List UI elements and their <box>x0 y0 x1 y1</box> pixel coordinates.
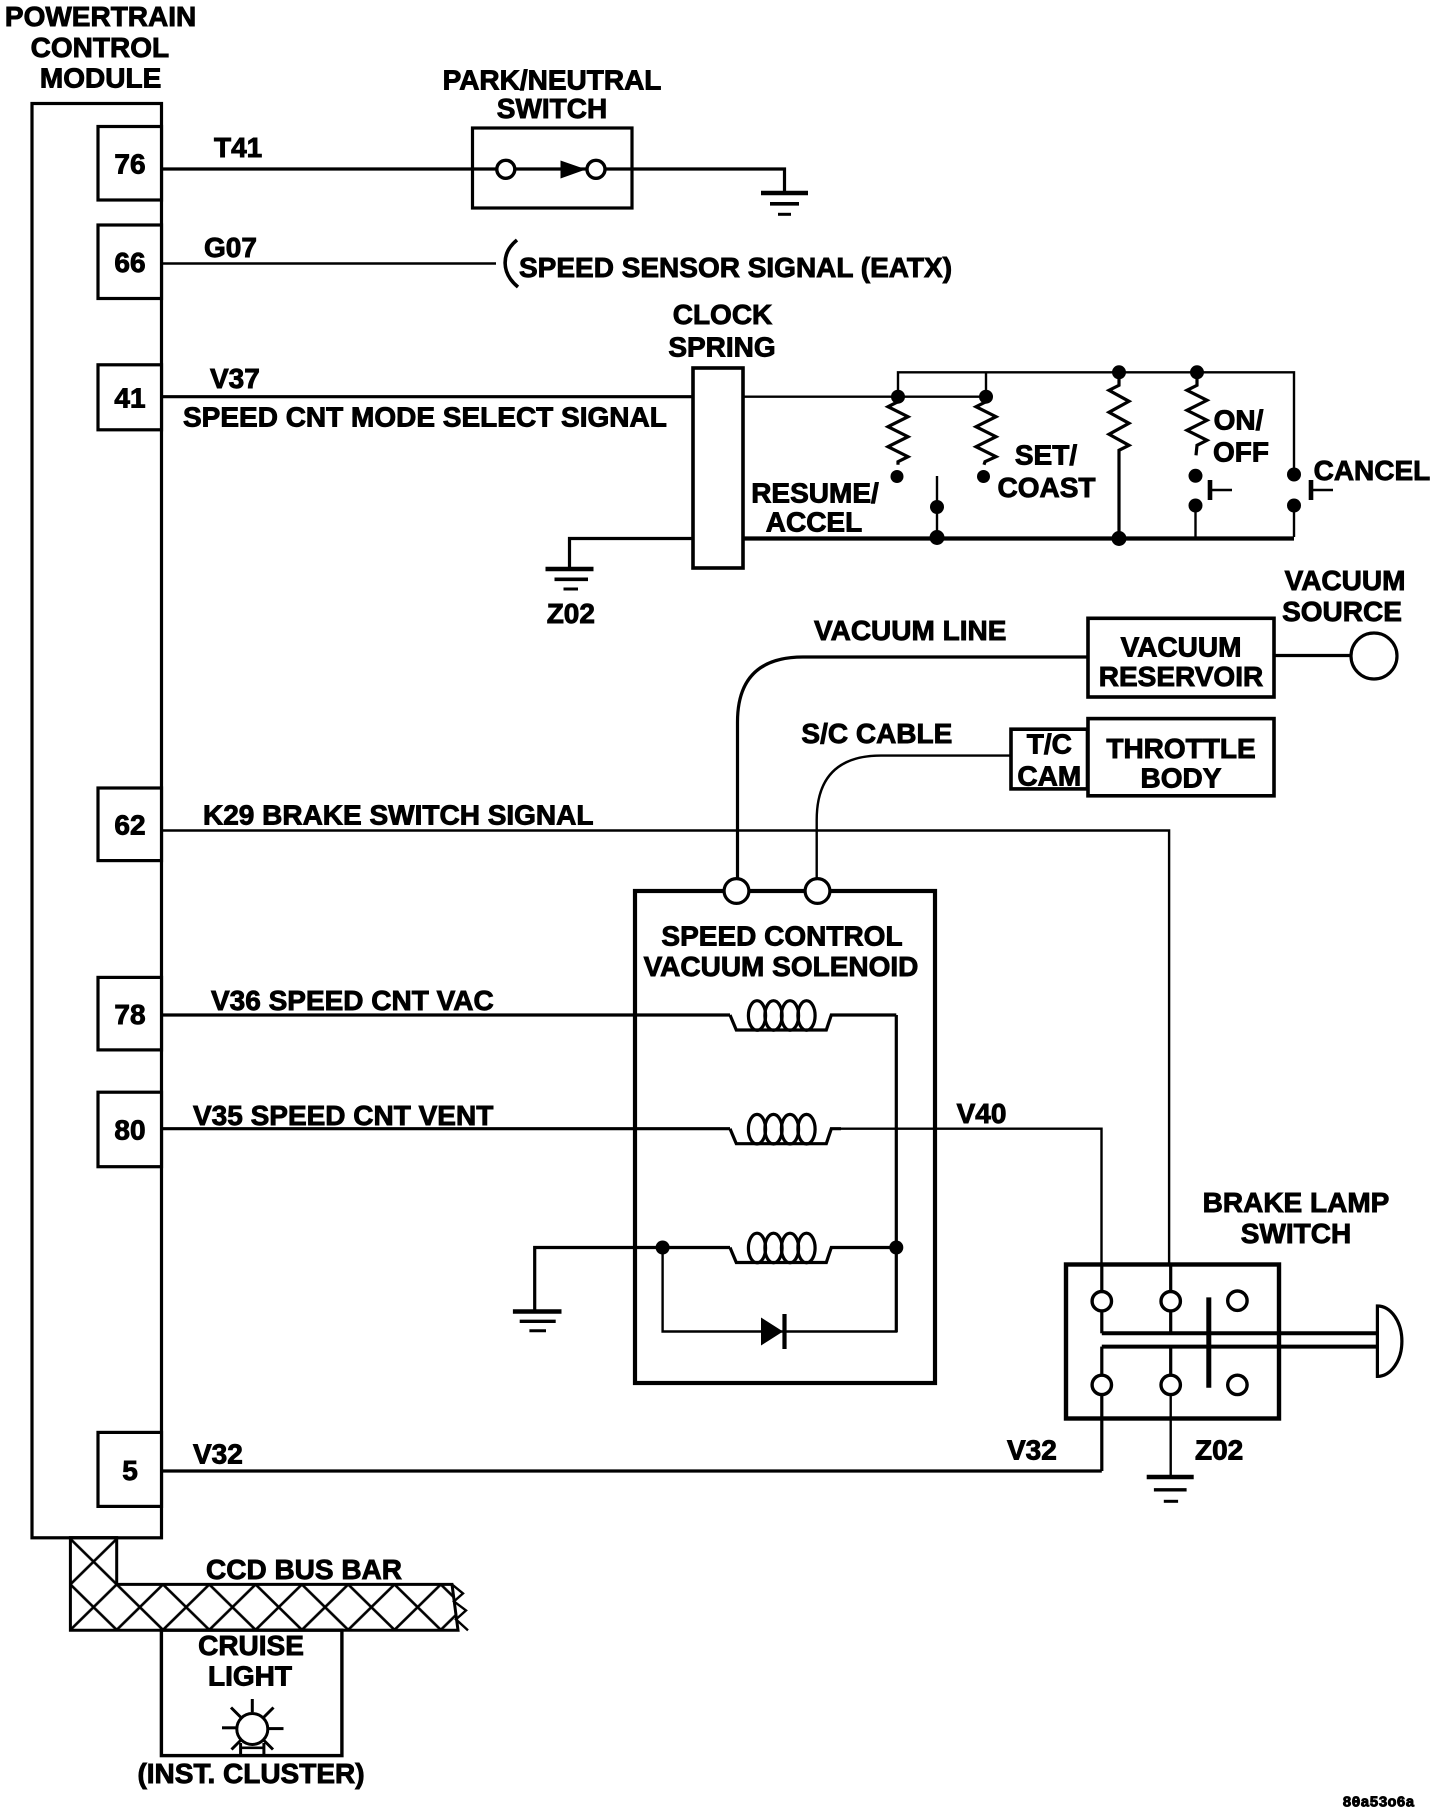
powertrain control module U1 body <box>32 104 162 1538</box>
wire stub resistor R2 top <box>985 372 987 396</box>
brake lamp switch label <box>1203 1187 1390 1249</box>
resistor R1 (resume/accel) <box>888 397 908 483</box>
svg-text:V36 SPEED CNT VAC: V36 SPEED CNT VAC <box>211 985 494 1016</box>
svg-text:COAST: COAST <box>998 472 1096 503</box>
label RESUME/ACCEL <box>751 478 879 538</box>
svg-text:MODULE: MODULE <box>40 63 161 94</box>
wire bottom rail of switch pack <box>743 536 1294 540</box>
node junction L3 left <box>656 1241 670 1255</box>
node junction L3 right <box>889 1241 903 1255</box>
vacuum reservoir body <box>1088 618 1274 697</box>
node speed sensor signal (EATX) brace <box>505 240 518 287</box>
svg-text:G07: G07 <box>204 232 257 263</box>
resistor R4 (on/off column) <box>1187 365 1207 483</box>
throttle body <box>1088 719 1274 796</box>
svg-text:Z02: Z02 <box>1195 1435 1243 1466</box>
svg-text:66: 66 <box>114 247 145 278</box>
pin 78 <box>98 977 162 1050</box>
svg-text:SPRING: SPRING <box>668 332 775 363</box>
pin 41 <box>98 365 162 430</box>
svg-text:VACUUM: VACUUM <box>1285 565 1406 596</box>
svg-text:ACCEL: ACCEL <box>766 507 862 538</box>
pin 66 <box>98 225 162 299</box>
wire ground coil row <box>535 1248 730 1312</box>
CCD bus bar break symbol <box>452 1584 468 1630</box>
port circle S/C cable on solenoid <box>805 879 830 904</box>
wire T41 pin76 to park/neutral switch <box>162 167 473 170</box>
resistor R2 (set/coast) <box>976 397 996 483</box>
wire vacuum reservoir to vacuum source <box>1274 654 1351 657</box>
svg-text:V37: V37 <box>210 363 260 394</box>
wire common return vertical in solenoid <box>895 1015 898 1332</box>
node junction R2 top <box>979 390 993 404</box>
svg-text:Z02: Z02 <box>547 598 595 629</box>
svg-text:K29 BRAKE SWITCH SIGNAL: K29 BRAKE SWITCH SIGNAL <box>203 800 593 831</box>
label SET/COAST <box>998 440 1096 504</box>
svg-text:78: 78 <box>114 999 145 1030</box>
svg-text:80a53o6a: 80a53o6a <box>1343 1795 1415 1812</box>
terminal circles bottom row <box>1092 1375 1247 1394</box>
brake lamp switch S2 body <box>1066 1265 1279 1419</box>
svg-text:PARK/NEUTRAL: PARK/NEUTRAL <box>443 65 662 96</box>
terminal circles top row <box>1092 1291 1247 1311</box>
svg-text:RESUME/: RESUME/ <box>751 478 879 509</box>
svg-text:VACUUM LINE: VACUUM LINE <box>814 615 1006 646</box>
T/C CAM body <box>1011 728 1088 791</box>
svg-text:V40: V40 <box>957 1098 1007 1129</box>
svg-text:BODY: BODY <box>1141 763 1222 794</box>
svg-text:T/C: T/C <box>1027 728 1072 759</box>
wire S/C cable to solenoid port <box>817 756 1011 880</box>
svg-text:CRUISE: CRUISE <box>198 1630 304 1661</box>
svg-text:RESERVOIR: RESERVOIR <box>1099 661 1263 692</box>
svg-text:41: 41 <box>114 383 145 414</box>
svg-text:VACUUM: VACUUM <box>1121 631 1242 662</box>
ground Z02 at clock spring <box>546 569 594 589</box>
diode D1 <box>761 1314 785 1349</box>
svg-text:5: 5 <box>122 1455 138 1486</box>
svg-text:SWITCH: SWITCH <box>497 93 607 124</box>
ground for park/neutral switch <box>761 193 808 214</box>
svg-text:SPEED CNT MODE SELECT SIGNAL: SPEED CNT MODE SELECT SIGNAL <box>183 402 667 433</box>
wire park/neutral switch to ground <box>632 169 785 193</box>
wire K29 into top middle terminal <box>1169 1265 1172 1292</box>
svg-text:T41: T41 <box>214 132 262 163</box>
svg-text:V32: V32 <box>193 1439 243 1470</box>
actuator cross bar <box>1206 1297 1211 1387</box>
svg-text:POWERTRAIN: POWERTRAIN <box>5 1 196 32</box>
plunger bar of brake lamp switch <box>1102 1333 1378 1346</box>
svg-text:CAM: CAM <box>1017 760 1081 791</box>
wire V37 pin41 to clock spring <box>162 395 694 398</box>
wire K29 brake switch signal <box>162 831 1170 1293</box>
inductor L2 vent coil <box>730 1114 841 1144</box>
resistor R3 (set/coast column) <box>1109 365 1129 546</box>
svg-text:SPEED SENSOR SIGNAL (EATX): SPEED SENSOR SIGNAL (EATX) <box>519 252 952 283</box>
svg-text:V35 SPEED CNT VENT: V35 SPEED CNT VENT <box>193 1100 493 1131</box>
wire bottom left terminal to V32 <box>1100 1395 1103 1471</box>
park/neutral switch S1 label <box>443 65 662 124</box>
svg-text:THROTTLE: THROTTLE <box>1106 733 1255 764</box>
wire V36 speed cnt vac <box>162 1013 731 1016</box>
pin 62 <box>98 788 162 861</box>
wire V40 solenoid to brake lamp switch <box>841 1129 1102 1292</box>
label ON/OFF <box>1213 405 1269 468</box>
svg-text:80: 80 <box>114 1115 145 1146</box>
wire V32 pin5 to brake lamp switch <box>162 1469 1102 1472</box>
wire V40 into top left terminal <box>1100 1265 1103 1292</box>
svg-text:ON/: ON/ <box>1214 405 1264 436</box>
svg-text:LIGHT: LIGHT <box>208 1661 292 1692</box>
svg-text:CCD BUS BAR: CCD BUS BAR <box>206 1554 402 1585</box>
park/neutral switch S1 body <box>473 128 633 208</box>
clock spring label <box>668 299 775 363</box>
label VACUUM SOURCE <box>1282 565 1405 627</box>
lamp symbol in cruise light <box>222 1699 284 1756</box>
svg-text:S/C CABLE: S/C CABLE <box>801 718 952 749</box>
speed control vacuum solenoid body <box>635 891 935 1383</box>
ground Z02 at brake lamp switch <box>1147 1477 1194 1501</box>
inductor L3 dump coil <box>730 1233 896 1263</box>
clock spring body <box>693 368 743 568</box>
ground for solenoid coil <box>513 1312 562 1331</box>
svg-text:CLOCK: CLOCK <box>673 299 773 330</box>
wire G07 speed sensor signal <box>162 262 497 264</box>
svg-text:CONTROL: CONTROL <box>31 32 169 63</box>
svg-text:(INST. CLUSTER): (INST. CLUSTER) <box>137 1758 364 1789</box>
svg-text:BRAKE LAMP: BRAKE LAMP <box>1203 1187 1390 1218</box>
CCD bus bar hatched L-bar <box>70 1538 458 1631</box>
svg-text:SOURCE: SOURCE <box>1282 596 1402 627</box>
wire top rail of switch pack <box>898 372 1294 474</box>
svg-text:OFF: OFF <box>1213 437 1269 468</box>
switch contact on/off <box>1189 480 1233 537</box>
svg-text:VACUUM SOLENOID: VACUUM SOLENOID <box>644 951 919 982</box>
wire bottom middle terminal to ground <box>1169 1395 1171 1477</box>
wire vacuum line to solenoid port <box>738 657 1089 880</box>
svg-text:SPEED CONTROL: SPEED CONTROL <box>661 920 902 951</box>
wire diode loop <box>663 1248 897 1332</box>
wire terminal stubs inside switch <box>1102 1311 1171 1375</box>
node junction R1 top <box>891 390 905 404</box>
inductor L1 vac coil <box>730 1001 896 1031</box>
svg-text:V32: V32 <box>1007 1435 1057 1466</box>
vacuum source port circle <box>1351 633 1397 679</box>
port circle vacuum line on solenoid <box>724 879 749 904</box>
wire clock spring to switch resistors <box>743 396 986 398</box>
svg-text:76: 76 <box>114 149 145 180</box>
cruise light body <box>161 1630 342 1756</box>
svg-text:62: 62 <box>114 810 145 841</box>
pin 80 <box>98 1092 162 1167</box>
wire V35 speed cnt vent <box>162 1127 731 1130</box>
pin 5 <box>98 1432 162 1506</box>
plunger cap <box>1377 1306 1402 1376</box>
switch contact cancel <box>1287 468 1333 538</box>
powertrain control module U1 label <box>5 1 196 93</box>
svg-text:SWITCH: SWITCH <box>1241 1218 1351 1249</box>
switch contact resume/accel wiper <box>930 476 945 545</box>
svg-text:CANCEL: CANCEL <box>1314 455 1431 486</box>
pin 76 <box>98 127 162 201</box>
wire clock spring left to ground Z02 <box>570 539 694 570</box>
svg-text:SET/: SET/ <box>1015 440 1077 471</box>
